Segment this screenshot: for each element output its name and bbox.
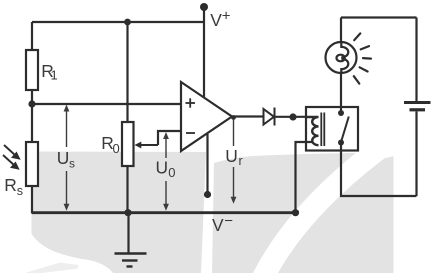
svg-text:R: R: [4, 175, 17, 195]
wire: bottom rail V-: [32, 211, 296, 214]
switch lever: [342, 117, 349, 141]
svg-text:U: U: [225, 146, 238, 166]
wire: R0 bottom to bottom rail: [126, 166, 128, 214]
wire: left vertical upper (top rail to R1): [31, 22, 33, 52]
wire: lamp top to top-right rail: [340, 18, 342, 42]
battery B1: [404, 103, 431, 110]
relay K1 box: [306, 107, 358, 151]
svg-text:0: 0: [113, 141, 120, 156]
wire: node A to op-amp + input: [32, 103, 181, 105]
wire: wiper to op-amp - input: [158, 131, 181, 145]
svg-text:U: U: [156, 157, 169, 177]
switch top contact: [338, 110, 344, 116]
wire: R1 bottom to node A: [31, 90, 33, 104]
op-amp + sign: [186, 98, 196, 107]
wire: right vertical to battery: [415, 18, 417, 102]
wire: op-amp V- pin: [206, 134, 208, 194]
svg-text:r: r: [239, 154, 243, 168]
svg-text:+: +: [222, 7, 231, 24]
op-amp U1: [181, 82, 232, 151]
terminal V+ dot: [200, 3, 208, 11]
svg-text:U: U: [57, 148, 70, 168]
svg-text:V: V: [210, 10, 222, 30]
wire: Rs bottom to bottom rail: [31, 186, 33, 214]
node E junction dot (rail end): [292, 209, 299, 216]
wire: op-amp output to diode: [232, 115, 263, 117]
wire: V+ supply to op-amp: [203, 6, 205, 98]
wire: node A to Rs: [31, 104, 33, 144]
wire: lamp to switch: [340, 74, 342, 114]
measure arrow Ur: [231, 120, 237, 204]
wire: diode to relay coil: [275, 116, 307, 118]
switch bottom contact: [338, 140, 344, 146]
measure arrow U0: [163, 132, 169, 211]
node C junction dot (ground node): [124, 209, 131, 216]
svg-text:1: 1: [51, 68, 58, 83]
potentiometer R0: [122, 122, 134, 166]
op-amp - sign: [186, 132, 195, 134]
light arrow 1: [4, 145, 19, 159]
wire: node B down to R0: [126, 22, 128, 123]
wire: battery bottom down: [415, 112, 417, 197]
wire: coil exit to bottom rail: [296, 142, 314, 213]
photoresistor Rs: [26, 142, 38, 186]
op-amp V- pin terminal dot: [204, 191, 211, 198]
node D junction dot before relay: [289, 113, 296, 120]
light arrow 2: [3, 155, 18, 169]
measure arrow Us: [64, 105, 70, 211]
svg-text:−: −: [224, 213, 233, 230]
svg-text:0: 0: [168, 165, 175, 180]
svg-text:s: s: [69, 157, 75, 171]
lamp: [326, 42, 357, 74]
diode D1: [264, 108, 275, 126]
wire: ground stem: [127, 213, 129, 253]
relay coil: [306, 117, 319, 145]
ground: [115, 254, 147, 267]
svg-text:s: s: [17, 184, 23, 198]
R0 wiper arrow: [135, 142, 159, 149]
node A junction dot: [28, 100, 35, 107]
wire: top rail: [32, 21, 204, 23]
resistor R1: [26, 50, 38, 90]
lamp rays: [354, 33, 371, 83]
svg-text:V: V: [212, 215, 224, 235]
output node dot: [231, 115, 236, 120]
node B junction dot (top rail / R0 branch): [124, 19, 131, 26]
wire: top-right rail: [341, 16, 417, 18]
relay core lines: [321, 113, 324, 147]
wire: switch bottom to battery loop: [341, 143, 417, 197]
